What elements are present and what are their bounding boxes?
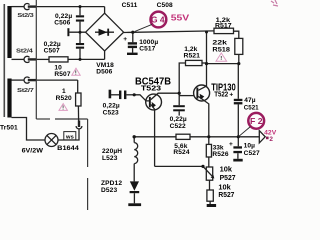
svg-text:R507: R507 (54, 71, 70, 78)
svg-text:B1644: B1644 (57, 145, 79, 152)
svg-text:47µ: 47µ (244, 97, 256, 104)
svg-text:C506: C506 (54, 20, 70, 27)
capacitor C506 column top wire (79, 7, 81, 16)
svg-text:L523: L523 (102, 155, 118, 162)
junction C521/C527 on output wire (237, 135, 240, 138)
svg-text:C527: C527 (244, 150, 260, 157)
wire R520 bottom to connector (77, 106, 79, 121)
svg-text:6V/2W: 6V/2W (22, 147, 44, 154)
top-right magenta smudge (271, 0, 278, 6)
resistor R518 box (235, 38, 243, 54)
capacitor C507 plates (76, 43, 84, 45)
resistor R507 box (49, 57, 68, 62)
svg-text:R518: R518 (212, 46, 230, 53)
svg-text:C517: C517 (139, 46, 155, 53)
bridge inner diode (95, 31, 114, 33)
terminal left of bridge (67, 28, 69, 36)
svg-text:R521: R521 (184, 53, 201, 60)
P527 wiper arrow (203, 166, 212, 176)
junction C507 bottom (79, 58, 82, 61)
junction C506 top (79, 5, 82, 8)
connector St2/4 pin (28, 58, 37, 60)
wire St2/4 to R507 (36, 58, 49, 60)
TIP130 collector entry (198, 86, 206, 90)
warning triangle R520 (59, 104, 67, 111)
inductor L523 (133, 137, 135, 143)
connector St2/4 socket arc (24, 56, 29, 62)
svg-text:C507: C507 (44, 47, 60, 54)
svg-text:T523: T523 (141, 83, 161, 92)
resistor R524 box (176, 134, 190, 139)
svg-text:R526: R526 (212, 151, 228, 158)
wire lamp to connector (58, 129, 79, 140)
resistor R520 box (76, 93, 81, 106)
svg-text:1: 1 (62, 88, 66, 95)
junction R526 top on output wire (207, 135, 210, 138)
transformer bottom wire to lamp (12, 118, 46, 141)
capacitor C523 lead (111, 94, 119, 96)
connector St2/7 socket arc (24, 77, 29, 83)
wire tap St2/4 (12, 58, 25, 60)
connector St2/3 pin (28, 5, 37, 7)
+2 label (266, 137, 269, 140)
wire R517 right corner down (234, 31, 239, 38)
svg-text:F 2: F 2 (250, 117, 263, 126)
resistor R521 left corner (179, 63, 185, 105)
BC547B emitter wire to pot (155, 165, 203, 167)
wire corner down to bridge top (104, 7, 106, 14)
svg-text:R527: R527 (218, 190, 234, 199)
potentiometer P527 box (206, 167, 212, 180)
warning triangle R507 (72, 68, 80, 75)
svg-text:C508: C508 (157, 2, 173, 9)
junction C523/base node (133, 93, 136, 96)
capacitor C523 plates (119, 91, 121, 100)
junction rail to collector branch (205, 31, 208, 34)
svg-text:G 4: G 4 (151, 16, 165, 25)
ground below C527 (233, 159, 242, 162)
connector St2/7 pin (28, 79, 37, 81)
capacitor C522 stub (178, 111, 180, 115)
svg-text:220µH: 220µH (102, 148, 122, 155)
capacitor C522 plates (173, 105, 185, 107)
svg-text:C522: C522 (170, 123, 186, 130)
capacitor C517 stem (132, 48, 134, 53)
ws label box (64, 132, 76, 140)
zener diode ZPD12 D523 (130, 181, 139, 190)
BC547B collector (151, 93, 179, 99)
svg-text:R517: R517 (215, 23, 232, 30)
bridge rectifier VM18 D506 diamond (86, 13, 124, 51)
wire C507 bottom (79, 49, 81, 60)
wire corner down to R520 (77, 80, 79, 93)
svg-text:C523: C523 (103, 109, 119, 116)
capacitor C517 terminal bar (127, 53, 138, 55)
connector St2/3 socket arc (24, 4, 29, 10)
svg-text:Tr501: Tr501 (0, 125, 18, 132)
svg-text:ws: ws (65, 134, 74, 140)
junction R518 bottom (237, 62, 240, 65)
svg-text:+: + (229, 92, 233, 99)
svg-text:10µ: 10µ (244, 143, 256, 150)
wire St2/3 to bridge (36, 6, 104, 8)
junction collector line (205, 62, 208, 65)
connector ws socket arc (76, 126, 82, 129)
wire tap St2/7 (12, 79, 25, 81)
capacitor C521 column (237, 64, 239, 99)
capacitor C527 (237, 137, 239, 147)
junction P527 wiper node (201, 165, 204, 168)
wire R518 bottom (238, 54, 240, 63)
transistor TIP130 T522 (194, 85, 210, 101)
wire C506 to node (79, 22, 81, 43)
svg-text:R520: R520 (56, 95, 72, 102)
stamp F2 (248, 113, 264, 129)
wire node to BC547B base (134, 95, 149, 101)
wire corner up to bridge bottom (104, 51, 106, 59)
resistor R521 box (186, 60, 203, 65)
BC547B emitter (151, 104, 155, 166)
svg-text:C521: C521 (244, 105, 259, 112)
capacitor C517 plates (128, 42, 137, 44)
+55V rail from bridge right vertex (124, 31, 214, 33)
svg-text:ZPD12: ZPD12 (101, 180, 122, 187)
junction R521/C522/BC547B collector (178, 92, 181, 95)
output arrow (259, 131, 265, 143)
bridge inner diode bar (107, 29, 109, 36)
wire terminal to bridge left vertex (69, 31, 85, 33)
warning triangle R518 (216, 53, 227, 61)
transformer winding bar upper (7, 6, 11, 58)
connector ws pin (78, 121, 80, 128)
module boundary vertical right (dashed) (87, 119, 89, 167)
svg-text:D506: D506 (96, 69, 112, 76)
svg-text:R524: R524 (173, 149, 189, 156)
wire base node horizontal (207, 63, 239, 65)
resistor R526 column (208, 137, 210, 145)
svg-text:St2/4: St2/4 (16, 49, 33, 55)
output wire 42V (134, 136, 176, 138)
transformer Tr501 core (3, 4, 5, 117)
svg-text:T522: T522 (214, 92, 228, 99)
wire C523 to node (126, 94, 134, 96)
collector vertical TIP130 (206, 32, 208, 87)
resistor R517 box (214, 28, 234, 33)
svg-text:St2/7: St2/7 (17, 88, 34, 94)
svg-text:C511: C511 (122, 2, 138, 9)
svg-text:+: + (229, 141, 233, 148)
wire L523 to zener (133, 164, 135, 182)
junction L523 top node (133, 135, 136, 138)
capacitor C517 top wire (132, 32, 134, 42)
transistor BC547B T523 (146, 94, 162, 110)
ground below R527 (207, 204, 216, 207)
junction C506/C507 node (79, 31, 82, 34)
wire R521 right (202, 62, 207, 64)
wire tap St2/3 (12, 6, 25, 8)
svg-text:St2/3: St2/3 (17, 13, 34, 19)
svg-text:P527: P527 (220, 173, 236, 182)
wire R507 to bridge bottom corner (68, 58, 105, 60)
wire St2/7 to R520 corner (36, 79, 77, 81)
svg-text:D523: D523 (101, 187, 117, 194)
ground below ZPD12 (128, 203, 141, 206)
resistor R527 (209, 180, 211, 190)
lamp B1644 (45, 134, 58, 147)
module boundary vertical left (36, 0, 87, 210)
stamp G4 (151, 12, 167, 28)
transformer winding bar lower (7, 79, 11, 118)
junction C517 on rail (131, 31, 134, 34)
TIP130 base wire (179, 95, 194, 97)
svg-text:+: + (123, 36, 127, 43)
svg-text:2: 2 (269, 136, 273, 143)
capacitor C523 terminal (109, 90, 112, 99)
module boundary bottom horizontal (36, 118, 50, 120)
TIP130 emitter (198, 96, 209, 137)
capacitor C506 plates (76, 15, 84, 17)
svg-text:55V: 55V (171, 12, 190, 22)
